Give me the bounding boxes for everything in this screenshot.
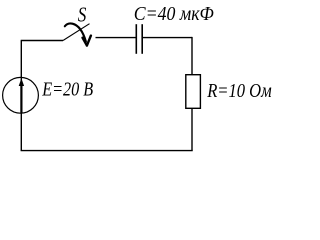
switch S blade [63, 24, 90, 41]
wire right vertical bottom [191, 108, 193, 150]
capacitor C1 plate right [141, 24, 143, 54]
wire right vertical top [191, 37, 193, 75]
switch closing arrow [65, 24, 86, 42]
capacitor C1 plate left [135, 24, 137, 54]
svg-text:R=10 Ом: R=10 Ом [206, 80, 272, 102]
EMF source E arrowhead [19, 78, 24, 86]
EMF source E circle [3, 77, 39, 113]
EMF source E arrow shaft [20, 85, 22, 114]
svg-text:S: S [78, 3, 87, 27]
wire capacitor to top-right corner [142, 37, 192, 39]
svg-text:C=40 мкФ: C=40 мкФ [134, 3, 214, 25]
wire switch to capacitor [96, 37, 137, 39]
wire bottom horizontal [21, 150, 193, 152]
wire left vertical [20, 41, 22, 151]
wire top-left horizontal [21, 40, 63, 42]
resistor R1 body [186, 75, 201, 109]
svg-text:E=20 В: E=20 В [41, 79, 93, 101]
